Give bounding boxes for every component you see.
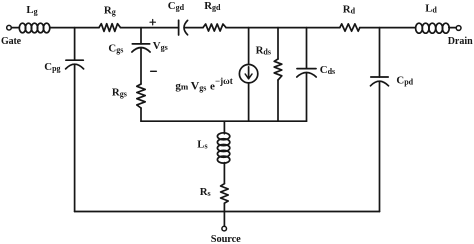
- svg-text:Cgd: Cgd: [168, 0, 185, 12]
- svg-text:−jωt: −jωt: [215, 76, 233, 86]
- svg-text:Cpd: Cpd: [396, 74, 413, 86]
- svg-text:Vgs: Vgs: [191, 78, 207, 92]
- svg-text:Cgs: Cgs: [108, 42, 123, 54]
- svg-text:gm: gm: [175, 80, 189, 92]
- svg-text:Lg: Lg: [26, 4, 37, 16]
- svg-text:Cds: Cds: [320, 64, 335, 76]
- svg-text:Vgs: Vgs: [153, 40, 168, 52]
- svg-text:Rds: Rds: [256, 44, 271, 56]
- svg-text:Gate: Gate: [1, 36, 22, 47]
- svg-text:Rgd: Rgd: [204, 0, 221, 12]
- svg-text:Ld: Ld: [425, 2, 437, 14]
- svg-text:Rgs: Rgs: [112, 87, 127, 99]
- svg-text:Source: Source: [211, 234, 241, 244]
- svg-text:Cpg: Cpg: [44, 61, 60, 73]
- svg-text:Rd: Rd: [343, 3, 356, 15]
- svg-text:Rg: Rg: [104, 5, 116, 17]
- svg-text:Rs: Rs: [200, 186, 211, 198]
- svg-text:Drain: Drain: [448, 36, 473, 47]
- svg-text:Ls: Ls: [197, 139, 207, 151]
